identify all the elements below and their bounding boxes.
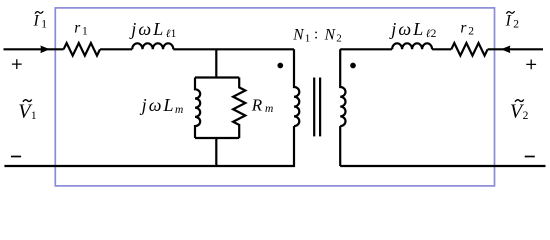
svg-text:1: 1 [305, 32, 311, 44]
svg-text:r: r [74, 20, 81, 37]
transformer secondary winding [340, 49, 345, 166]
svg-text:2: 2 [523, 110, 529, 122]
wire junction stub down [215, 49, 217, 77]
svg-text:R: R [251, 96, 263, 115]
label V1 tilde [23, 100, 32, 102]
wire bottom-right [340, 165, 545, 167]
wire between r1 and Ll1 [100, 48, 132, 50]
wire bottom-left [4, 126, 294, 166]
minus sign right [525, 156, 535, 158]
resistor r1 [64, 43, 100, 56]
svg-text:m: m [175, 104, 183, 116]
svg-text:1: 1 [41, 18, 47, 30]
svg-text:jωL: jωL [140, 95, 176, 115]
svg-text:ℓ2: ℓ2 [426, 28, 437, 40]
svg-text:jωL: jωL [129, 19, 165, 39]
wire top-left lead [4, 48, 64, 50]
resistor Rm [233, 78, 245, 139]
transformer primary winding [294, 49, 299, 126]
plus sign left [12, 59, 22, 69]
inductor Ll1 [132, 43, 173, 49]
transformer core [314, 78, 320, 137]
svg-text:2: 2 [513, 18, 519, 30]
svg-text:ℓ1: ℓ1 [166, 28, 177, 40]
current arrow I1 [40, 46, 49, 54]
wire parallel top bar [195, 76, 239, 78]
wire Ll1 to transformer primary [173, 48, 294, 50]
polarity dot primary [277, 63, 283, 69]
inductor Lm [195, 78, 200, 139]
wire parallel bottom bar [195, 137, 239, 139]
svg-text:r: r [460, 20, 467, 37]
current arrow I2 [501, 46, 510, 54]
wire secondary top to Ll2 [340, 48, 392, 50]
label I2 tilde [506, 11, 514, 14]
minus sign left [11, 156, 21, 158]
svg-text::: : [314, 27, 318, 43]
plus sign right [526, 60, 536, 70]
svg-text:1: 1 [31, 110, 37, 122]
svg-text:jωL: jωL [389, 19, 425, 39]
wire Ll2 to r2 [432, 48, 451, 50]
wire top-right lead [488, 48, 543, 50]
label V2 tilde [515, 100, 524, 102]
inductor Ll2 [392, 43, 432, 49]
resistor r2 [451, 43, 487, 56]
svg-text:N: N [324, 26, 337, 43]
outer box (blue frame) [55, 8, 494, 186]
polarity dot secondary [350, 63, 356, 69]
svg-text:2: 2 [468, 26, 474, 38]
label I1 tilde [35, 11, 43, 14]
wire bottom center stub [215, 138, 217, 166]
svg-text:N: N [292, 26, 305, 43]
svg-text:m: m [265, 103, 273, 115]
svg-text:I: I [33, 13, 40, 30]
svg-text:I: I [505, 13, 512, 30]
svg-text:1: 1 [82, 26, 88, 38]
svg-text:2: 2 [336, 32, 342, 44]
